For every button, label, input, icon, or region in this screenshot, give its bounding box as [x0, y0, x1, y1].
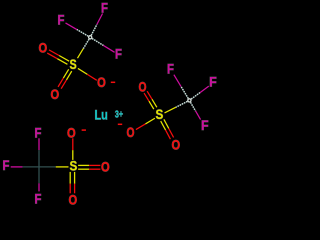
svg-text:F: F [201, 118, 209, 133]
svg-text:F: F [167, 62, 174, 77]
svg-text:F: F [35, 125, 42, 140]
svg-text:F: F [35, 192, 42, 206]
svg-text:O: O [97, 75, 106, 90]
svg-text:O: O [127, 125, 135, 140]
svg-text:O: O [101, 160, 110, 175]
svg-text:Lu: Lu [94, 107, 107, 123]
svg-text:F: F [115, 47, 122, 62]
svg-text:F: F [58, 12, 65, 27]
svg-text:F: F [101, 1, 108, 16]
svg-text:O: O [172, 138, 181, 153]
svg-text:O: O [51, 87, 60, 102]
svg-text:O: O [139, 79, 147, 94]
svg-text:S: S [69, 57, 76, 72]
svg-text:F: F [209, 75, 217, 90]
svg-text:O: O [69, 193, 78, 206]
svg-text:O: O [67, 125, 76, 140]
svg-text:S: S [156, 107, 164, 122]
svg-text:S: S [70, 159, 78, 174]
svg-text:O: O [39, 41, 48, 56]
svg-text:F: F [3, 158, 10, 173]
svg-text:3+: 3+ [115, 109, 123, 120]
